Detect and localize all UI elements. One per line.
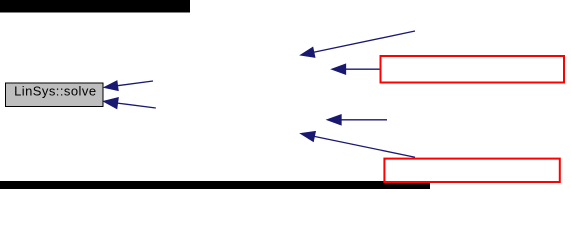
svg-text:LinSys::solve: LinSys::solve bbox=[14, 84, 96, 99]
